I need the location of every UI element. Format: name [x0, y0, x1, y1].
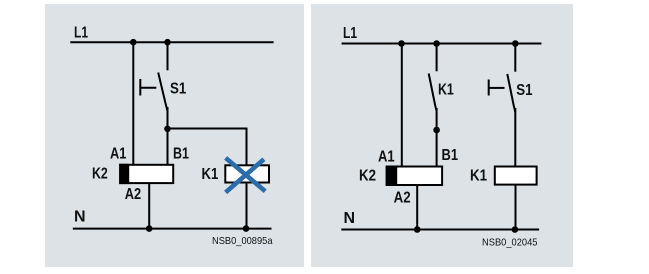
wire N bus (left panel) — [73, 228, 272, 230]
node junction on L1 at A1 branch — [130, 39, 137, 46]
svg-text:K1: K1 — [438, 82, 454, 99]
svg-text:L1: L1 — [74, 24, 88, 41]
svg-text:B1: B1 — [173, 146, 189, 163]
wire L1 to S1 — [167, 42, 169, 70]
node junction on L1 at S1 branch — [164, 39, 171, 46]
svg-text:N: N — [74, 208, 86, 225]
wire B1 node to K1 coil top — [168, 129, 247, 165]
wire L1 to K1 contact (right) — [436, 44, 438, 72]
svg-text:A2: A2 — [394, 190, 411, 207]
node junction at B1 (right panel) — [433, 127, 440, 134]
blue X cross-out marker over K1 coil — [226, 158, 266, 193]
wire L1 bus (left panel) — [70, 41, 273, 43]
node junction on N at K1 coil (right panel) — [512, 226, 519, 233]
wire K1 contact to B1 terminal — [436, 108, 438, 166]
left panel background — [45, 4, 304, 267]
node junction on L1 at K1 contact branch — [433, 40, 440, 47]
svg-text:S1: S1 — [516, 82, 532, 99]
node junction on L1 at S1 branch (right) — [512, 40, 519, 47]
pushbutton S1 contact and actuator (left panel) — [140, 73, 167, 112]
wire L1 to A1 terminal — [132, 42, 134, 165]
wire A2 terminal to N (right panel) — [416, 186, 418, 230]
svg-text:N: N — [344, 210, 356, 227]
wire N bus (right panel) — [341, 229, 539, 231]
svg-text:NSB0_00895a: NSB0_00895a — [212, 235, 273, 247]
svg-text:A1: A1 — [110, 146, 126, 163]
wire S1 to K1 coil (right panel) — [514, 108, 516, 166]
contactor coil K2 with A1/A2/B1 terminals (right panel) — [386, 166, 442, 187]
wire S1 to B1 terminal — [167, 107, 169, 165]
svg-text:K1: K1 — [202, 166, 219, 183]
node junction on N at A2 (right panel) — [414, 226, 421, 233]
node junction on N at K1 — [243, 225, 250, 232]
relay coil K1 (right panel) — [495, 167, 537, 185]
svg-text:K2: K2 — [92, 165, 108, 182]
node junction on N at A2 — [146, 225, 153, 232]
wire L1 to A1 terminal (right) — [401, 44, 403, 167]
node junction on L1 at A1 branch (right) — [398, 40, 405, 47]
wire K1 coil to N — [246, 183, 248, 229]
NO contact K1 (right panel) — [429, 74, 437, 112]
contactor coil K1 (left panel, crossed out) — [225, 165, 269, 182]
svg-text:A1: A1 — [378, 148, 395, 165]
wire L1 bus (right panel) — [342, 43, 542, 45]
svg-text:B1: B1 — [442, 147, 459, 164]
pushbutton S1 contact and actuator (right panel) — [489, 74, 516, 112]
svg-text:NSB0_02045: NSB0_02045 — [482, 236, 538, 248]
svg-text:K1: K1 — [470, 168, 487, 185]
svg-text:S1: S1 — [170, 80, 186, 97]
wire A2 terminal to N — [148, 184, 150, 229]
right panel background — [311, 4, 573, 267]
svg-text:K2: K2 — [359, 167, 376, 184]
contactor coil K2 with A1/A2/B1 terminals (left panel) — [119, 164, 173, 184]
wire L1 to S1 (right panel) — [514, 44, 516, 72]
svg-text:L1: L1 — [343, 25, 357, 42]
wire K1 coil to N (right panel) — [515, 185, 517, 230]
node junction at B1 branch — [164, 126, 171, 133]
svg-text:A2: A2 — [125, 186, 141, 203]
